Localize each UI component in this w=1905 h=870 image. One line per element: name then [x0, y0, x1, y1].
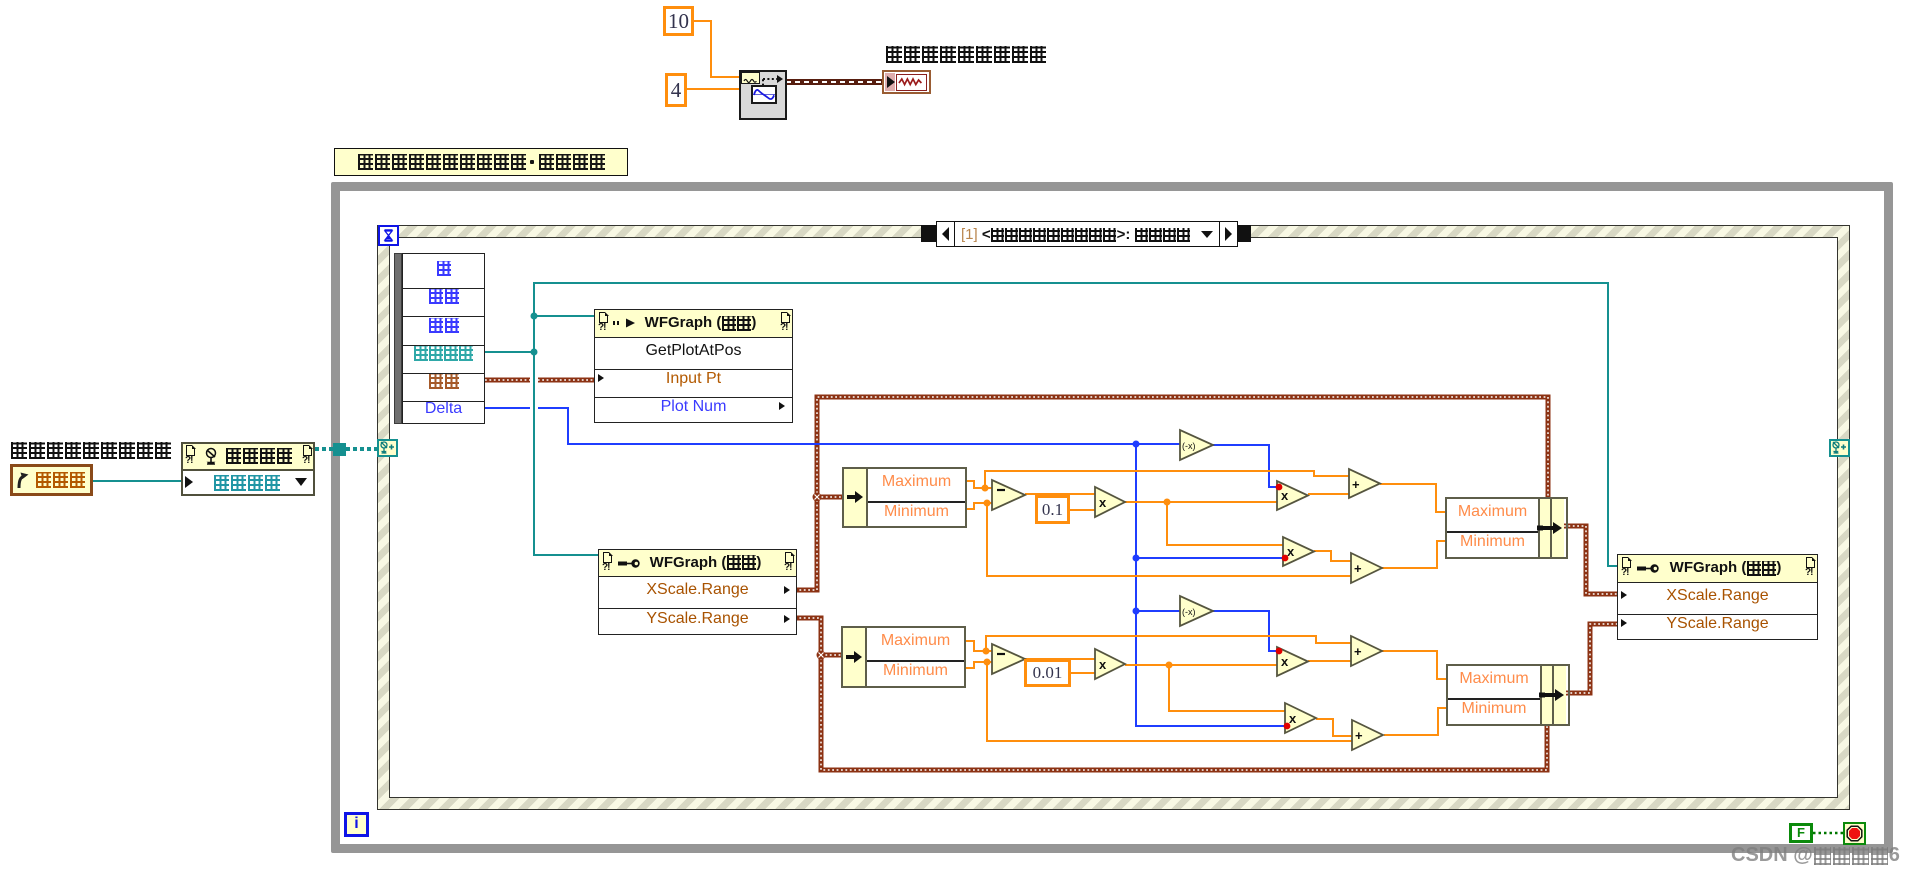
- numeric constant 0.1: [1035, 495, 1070, 524]
- wire: YScale.Range cluster loop: [795, 618, 1547, 770]
- wire tunnel on while-loop border: [333, 443, 346, 456]
- label: waveform graph title (left): [10, 442, 172, 460]
- wire: registered events (dashed teal): [315, 447, 378, 451]
- label: waveform graph title (top): [885, 46, 1047, 64]
- wire: multiply4 out: [1316, 719, 1352, 736]
- loop condition stop terminal: [1843, 822, 1866, 845]
- svg-text:(-x): (-x): [1182, 607, 1196, 617]
- svg-text:+: +: [1352, 477, 1360, 492]
- dynamic event terminal (right border): [1829, 439, 1850, 457]
- negate node 1: [1180, 430, 1213, 460]
- add node 4: [1352, 720, 1383, 750]
- wire: constant 10 to express VI: [694, 21, 739, 77]
- while loop frame: [331, 182, 1893, 853]
- event structure frame: [377, 225, 1850, 810]
- numeric constant 4: [665, 73, 687, 107]
- svg-text:(-x): (-x): [1182, 441, 1196, 451]
- wire: dynamic data (express VI to graph terminal): [786, 79, 883, 85]
- invoke node WFGraph GetPlotAtPos: [594, 309, 793, 423]
- wire: unbundle1 minimum: [963, 500, 1351, 577]
- svg-text:x: x: [1281, 654, 1289, 669]
- negate node 2: [1180, 596, 1213, 626]
- wire: F to stop (green dotted): [1813, 832, 1843, 834]
- control reference constant 波形图: [10, 464, 93, 496]
- waveform graph terminal (top): [882, 70, 931, 94]
- wire: add4 out to bundle2 min: [1384, 708, 1446, 735]
- svg-text:x: x: [1099, 657, 1107, 672]
- svg-text:x: x: [1289, 711, 1297, 726]
- svg-text:x: x: [1281, 488, 1289, 503]
- multiply node 4: [1284, 703, 1316, 733]
- wire: multiply2 out: [1314, 551, 1351, 561]
- wire: negate1 out: [1213, 445, 1277, 487]
- event selector label: [921, 221, 1251, 247]
- wire: subtract1 out / 0.1 out: [1025, 494, 1095, 510]
- wire: bundle2 to right property YScale: [1566, 624, 1617, 693]
- wire: bundle1 to right property XScale: [1564, 526, 1617, 594]
- property node WFGraph (right, write): [1617, 554, 1818, 640]
- wire: multiply3 out: [1308, 660, 1351, 662]
- svg-text:x: x: [1287, 544, 1295, 559]
- iteration terminal i: [344, 812, 369, 837]
- wire: multiplyB out: [1125, 662, 1285, 712]
- wire: unbundle1 maximum: [963, 471, 1349, 492]
- property node WFGraph (left, read): [598, 549, 797, 635]
- bundle by name node 2: [1446, 664, 1570, 726]
- wire: multiply1 out: [1308, 493, 1349, 495]
- wire: negate2 out: [1213, 611, 1277, 651]
- wire: constant 4 to express VI: [687, 88, 739, 90]
- wire: add3 out to bundle2 max: [1382, 651, 1446, 679]
- comment label box: [334, 148, 628, 176]
- add node 1: [1349, 469, 1380, 498]
- junction X on cluster wires: [813, 493, 822, 502]
- wire: control reference teal (drawn on top with gaps): [485, 283, 1617, 566]
- wire: unbundle2 maximum: [962, 636, 1351, 655]
- multiply node A: [1095, 487, 1125, 517]
- subtract node 2: [992, 644, 1025, 674]
- wire: subtract2 out / 0.01 out: [1022, 659, 1095, 673]
- wire: delta (blue): [485, 408, 1285, 726]
- svg-text:+: +: [1355, 728, 1363, 743]
- unbundle by name node 1: [842, 467, 967, 528]
- svg-text:x: x: [1099, 495, 1107, 510]
- wire: XScale.Range cluster loop: [795, 397, 1548, 590]
- multiply node B: [1095, 649, 1125, 679]
- wire: multiplyA out: [1125, 499, 1283, 546]
- CSDN watermark: [1731, 844, 1900, 867]
- svg-text:+: +: [1354, 644, 1362, 659]
- subtract node 1: [992, 480, 1025, 510]
- boolean constant F: [1789, 823, 1813, 843]
- add node 2: [1351, 553, 1382, 583]
- svg-text:+: +: [1354, 561, 1362, 576]
- simulate-signal express VI icon: [739, 70, 787, 120]
- multiply node 3: [1276, 647, 1308, 676]
- wire: graph ref constant to register events: [93, 480, 181, 482]
- event structure timeout terminal: [378, 225, 399, 246]
- multiply node 2: [1282, 537, 1314, 566]
- multiply node 1: [1276, 481, 1308, 510]
- wire: add1 out to bundle1 max: [1380, 484, 1446, 512]
- bundle by name node 1: [1445, 497, 1568, 559]
- wire: unbundle2 minimum: [962, 659, 1352, 742]
- event data node: [394, 253, 485, 422]
- dynamic event terminal (left border): [377, 439, 398, 457]
- numeric constant 0.01: [1024, 659, 1071, 687]
- numeric constant 10: [663, 6, 694, 36]
- unbundle by name node 2: [841, 626, 966, 688]
- register events node: [181, 442, 315, 496]
- wire: coords cluster to Input Pt (brown dashed): [485, 378, 594, 383]
- wire: add2 out to bundle1 min: [1382, 541, 1446, 568]
- add node 3: [1351, 636, 1382, 666]
